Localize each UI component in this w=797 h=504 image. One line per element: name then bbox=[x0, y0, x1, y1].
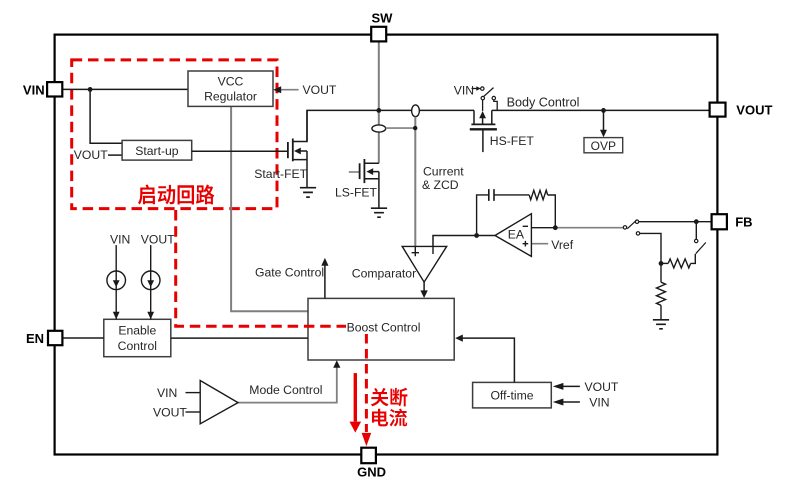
wire divider top node bbox=[640, 233, 661, 263]
wire VIN pad to VCC Regulator bbox=[62, 88, 188, 90]
pad GND bbox=[361, 448, 376, 464]
wire EA minus input segment bbox=[531, 227, 555, 229]
svg-text:VIN: VIN bbox=[23, 82, 45, 97]
arrow VOUT into Off-time bbox=[562, 385, 580, 387]
svg-text:SW: SW bbox=[372, 11, 394, 26]
current sensor ellipse on SW vertical bbox=[372, 125, 386, 132]
switch EA-to-FB blade bbox=[627, 220, 636, 228]
svg-text:VOUT: VOUT bbox=[141, 233, 175, 247]
svg-text:Comparator: Comparator bbox=[352, 266, 416, 280]
arrow down to OVP bbox=[603, 110, 605, 130]
wire body switch to VOUT side bbox=[494, 100, 497, 111]
wire EN pad to Enable Control bbox=[62, 337, 103, 339]
comparator minus input stub bbox=[432, 246, 434, 254]
svg-text:VIN: VIN bbox=[454, 84, 474, 98]
switch EA-to-FB terminal circles bbox=[623, 226, 626, 229]
capacitor C feedback bbox=[477, 195, 530, 236]
wire HS-FET drain to VOUT pad bbox=[492, 109, 710, 111]
comparator plus input mark bbox=[412, 246, 419, 256]
svg-text:GND: GND bbox=[357, 464, 386, 479]
wire Enable Control to Boost Control bbox=[171, 337, 308, 339]
wire EA minus input from FB switch network bbox=[555, 227, 623, 229]
divider switch blade bbox=[696, 243, 706, 254]
wire Start-up output to Start-FET gate bbox=[192, 150, 288, 152]
current sensor ellipse on SW bus bbox=[412, 105, 420, 117]
svg-text:Off-time: Off-time bbox=[490, 389, 533, 403]
svg-text:EN: EN bbox=[26, 331, 44, 346]
svg-text:VIN: VIN bbox=[110, 233, 130, 247]
arrow VIN into Off-time bbox=[562, 401, 580, 403]
comparator triangle bbox=[402, 246, 447, 282]
svg-text:Vref: Vref bbox=[551, 238, 574, 252]
svg-text:Current: Current bbox=[423, 164, 464, 178]
block Enable Control bbox=[104, 319, 171, 356]
wire SW bus to Start-FET drain and HS-FET source bbox=[307, 110, 474, 141]
svg-text:Boost Control: Boost Control bbox=[347, 321, 421, 335]
node EA output dot bbox=[474, 233, 479, 238]
resistor divider bottom (vertical) bbox=[660, 263, 662, 282]
svg-text:VOUT: VOUT bbox=[736, 103, 772, 118]
wire sensor tap to current-ZCD node bbox=[386, 127, 416, 129]
svg-text:VOUT: VOUT bbox=[585, 380, 619, 394]
pad FB bbox=[712, 214, 727, 229]
pad EN bbox=[48, 331, 62, 345]
startup-circuit red dashed box (qi dong hui lu region) bbox=[72, 60, 277, 209]
wire SW node vertical (SW pad down to LS-FET drain) bbox=[378, 42, 380, 164]
node EA feedback dot bbox=[553, 225, 558, 230]
svg-text:HS-FET: HS-FET bbox=[490, 134, 535, 148]
resistor divider top (horizontal) bbox=[691, 254, 696, 263]
arrow VIN into body switch bbox=[472, 88, 478, 90]
transistor HS-FET bbox=[474, 110, 492, 124]
arrow Gate Control up from Boost Control bbox=[324, 265, 326, 299]
op-amp EA error amplifier bbox=[495, 214, 531, 257]
svg-text:VOUT: VOUT bbox=[153, 405, 187, 419]
svg-text:FB: FB bbox=[735, 215, 752, 230]
ground under LS-FET bbox=[371, 208, 387, 217]
svg-text:Regulator: Regulator bbox=[204, 90, 257, 104]
svg-text:Mode Control: Mode Control bbox=[249, 383, 322, 397]
arrowhead Mode Control into Boost Control bbox=[333, 360, 340, 368]
svg-text:OVP: OVP bbox=[591, 139, 616, 153]
wire VIN down to Start-up bbox=[90, 89, 122, 143]
pad SW bbox=[371, 27, 386, 42]
block Boost Control bbox=[308, 298, 454, 360]
svg-text:VOUT: VOUT bbox=[74, 148, 108, 162]
svg-text:EA: EA bbox=[508, 228, 525, 242]
wire Vref stub to EA plus input bbox=[531, 243, 548, 245]
arrowhead into VCC Regulator right edge bbox=[273, 86, 281, 93]
wire Mode Control output to Boost Control bbox=[238, 365, 337, 403]
wire VOUT feed into VCC Regulator bbox=[278, 89, 299, 91]
node VOUT bus dot to OVP bbox=[601, 108, 606, 113]
svg-text:& ZCD: & ZCD bbox=[422, 178, 459, 192]
wire VIN into mode buffer bbox=[186, 392, 201, 394]
block Start-up bbox=[122, 140, 192, 160]
node SW junction dot bbox=[376, 108, 381, 113]
svg-text:Body Control: Body Control bbox=[507, 96, 580, 110]
wire VOUT into mode buffer bbox=[186, 411, 201, 413]
red solid shutdown-current arrow bbox=[354, 373, 357, 421]
wire current-ZCD sense down to comparator plus input bbox=[414, 117, 416, 247]
ground under divider bbox=[653, 320, 669, 329]
wire VCC Regulator output down to Boost Control bbox=[231, 106, 308, 311]
wire FB pad net bbox=[639, 221, 712, 223]
current source VIN into Enable Control bbox=[115, 245, 117, 319]
svg-text:VCC: VCC bbox=[218, 75, 244, 89]
wire Off-time to Boost Control bbox=[462, 338, 515, 382]
body switch terminal circles bbox=[481, 87, 484, 90]
ground under Start-FET bbox=[300, 188, 316, 197]
node VIN junction dot bbox=[88, 87, 93, 92]
node current sense junction dot bbox=[413, 126, 417, 130]
svg-text:VIN: VIN bbox=[157, 386, 177, 400]
resistor R feedback bbox=[529, 190, 548, 199]
pad VIN bbox=[47, 82, 62, 96]
pad VOUT bbox=[710, 103, 726, 117]
wire VOUT label into Start-up bbox=[108, 154, 122, 156]
divider switch terminal circle bbox=[695, 239, 698, 242]
block OVP bbox=[584, 138, 623, 153]
current source VOUT into Enable Control bbox=[150, 245, 152, 319]
svg-text:VOUT: VOUT bbox=[303, 83, 337, 97]
svg-text:LS-FET: LS-FET bbox=[335, 185, 378, 199]
IC boundary rectangle bbox=[55, 35, 718, 455]
block Off-time bbox=[473, 382, 552, 408]
node FB junction dot bbox=[694, 219, 699, 224]
red label qi-dong-hui-lu (startup circuit) bbox=[138, 185, 155, 205]
transistor LS-FET bbox=[349, 171, 359, 173]
svg-text:VIN: VIN bbox=[589, 396, 609, 410]
red label guan-duan (shutdown) bbox=[371, 388, 389, 406]
svg-text:Control: Control bbox=[118, 339, 157, 353]
red label dian-liu (current) bbox=[372, 409, 388, 427]
wire EA output to comparator minus input bbox=[433, 236, 495, 255]
block VCC Regulator bbox=[188, 71, 273, 106]
node divider junction dot bbox=[659, 261, 664, 266]
body switch blade bbox=[484, 88, 494, 97]
wire FB stub down to divider switch bbox=[695, 222, 697, 240]
svg-text:Enable: Enable bbox=[118, 323, 156, 337]
transistor Start-FET bbox=[287, 142, 289, 158]
svg-text:Gate Control: Gate Control bbox=[255, 266, 324, 280]
arrow comparator output into Boost Control bbox=[423, 282, 425, 291]
red dashed shutdown-current arrow to GND bbox=[365, 334, 368, 432]
svg-text:Start-FET: Start-FET bbox=[254, 167, 307, 181]
red dashed path startup box to Boost Control bbox=[176, 210, 346, 326]
buffer Mode Control triangle bbox=[200, 381, 238, 424]
svg-text:Start-up: Start-up bbox=[135, 144, 179, 158]
